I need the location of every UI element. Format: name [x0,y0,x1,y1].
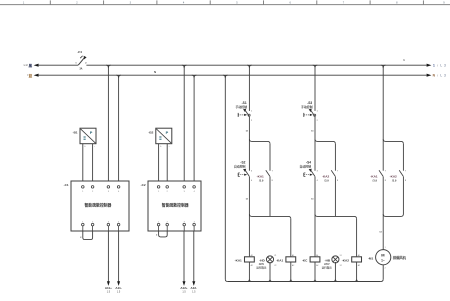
svg-text:/3.9: /3.9 [259,178,264,182]
svg-text:运行指示: 运行指示 [322,265,333,269]
svg-text:3: 3 [108,221,109,223]
svg-text:3: 3 [108,191,109,193]
svg-text:A1: A1 [358,254,360,257]
svg-text:L: L [440,64,442,68]
svg-text:4: 4 [118,221,119,223]
svg-text:蓝: 蓝 [29,73,33,78]
svg-text:1: 1 [385,247,386,249]
svg-text:L: L [440,74,442,78]
svg-text:-KA1: -KA1 [370,174,377,178]
svg-text:X2: X2 [340,265,342,267]
svg-text:A2: A2 [358,264,360,267]
svg-text:1: 1 [82,191,83,193]
svg-text:-KA1: -KA1 [235,258,242,262]
svg-text:-KA2: -KA2 [390,174,397,178]
svg-text:-HB: -HB [325,258,331,262]
svg-text:-C1: -C1 [64,183,69,187]
svg-text:-C2: -C2 [141,183,146,187]
svg-text:X2: X2 [274,265,276,267]
svg-text:-HD: -HD [259,258,265,262]
svg-text:-B1: -B1 [73,131,78,135]
svg-text:3: 3 [184,221,185,223]
svg-text:4: 4 [194,221,195,223]
svg-text:2: 2 [92,191,93,193]
svg-text:1~: 1~ [381,259,385,263]
svg-text:-KC: -KC [302,258,308,262]
svg-text:A1: A1 [316,254,318,257]
svg-text:2: 2 [167,191,168,193]
svg-text:3: 3 [444,74,446,78]
svg-text:-F4: -F4 [77,50,82,54]
svg-text:1: 1 [82,221,83,223]
svg-text:自动控制: 自动控制 [299,164,311,169]
svg-text:A2: A2 [292,264,294,267]
svg-text:1: 1 [158,221,159,223]
svg-text:A2: A2 [251,264,253,267]
svg-text:X1: X1 [274,255,276,257]
svg-text:4: 4 [194,191,195,193]
svg-text:-KA2: -KA2 [342,258,349,262]
svg-text:3: 3 [444,64,446,68]
svg-text:手动控制: 手动控制 [301,104,313,109]
svg-text:/3.9: /3.9 [324,178,329,182]
svg-text:-B2: -B2 [148,131,153,135]
svg-text:智能疏散控制器: 智能疏散控制器 [161,202,189,207]
svg-text:L1/: L1/ [24,63,28,67]
svg-text:排烟风机: 排烟风机 [393,255,407,260]
svg-text:P: P [166,130,169,135]
svg-text:3: 3 [184,191,185,193]
svg-text:2: 2 [385,267,386,269]
svg-text:P: P [90,130,93,135]
svg-text:-KA2: -KA2 [322,174,329,178]
svg-text:运行指示: 运行指示 [256,265,267,269]
svg-text:手动控制: 手动控制 [235,104,247,109]
svg-text:/3.9: /3.9 [392,179,397,183]
svg-text:2: 2 [167,221,168,223]
svg-text:黑: 黑 [29,63,33,68]
svg-text:-KA1: -KA1 [257,174,264,178]
svg-text:A1: A1 [251,254,253,257]
svg-text:1: 1 [158,191,159,193]
svg-text:2: 2 [92,221,93,223]
svg-text:A2: A2 [316,264,318,267]
svg-text:-M1: -M1 [368,256,374,260]
svg-text:N: N [154,70,156,74]
svg-text:X1: X1 [340,255,342,257]
svg-text:/3.9: /3.9 [373,179,378,183]
svg-text:3A: 3A [80,67,83,70]
svg-text:4: 4 [118,191,119,193]
svg-text:-KA1: -KA1 [276,258,283,262]
svg-text:1: 1 [433,64,435,68]
svg-text:A1: A1 [292,254,294,257]
svg-text:智能疏散控制器: 智能疏散控制器 [83,202,111,207]
svg-text:自动控制: 自动控制 [234,164,246,169]
